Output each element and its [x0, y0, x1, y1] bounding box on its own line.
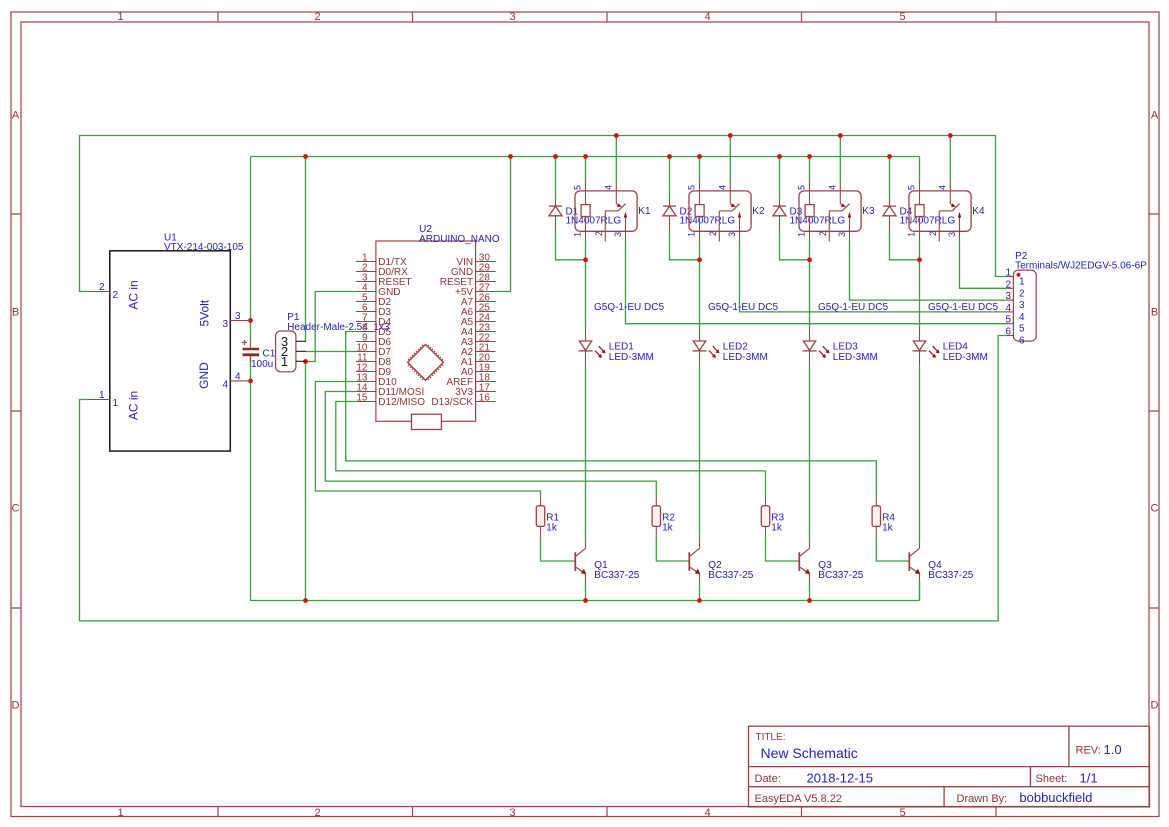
svg-text:1k: 1k: [882, 522, 894, 533]
svg-text:1: 1: [796, 232, 806, 237]
terminal block P2: [1013, 270, 1036, 341]
svg-text:4: 4: [704, 807, 710, 819]
svg-text:C: C: [1151, 503, 1159, 515]
MCU U2 ARDUINO_NANO: [376, 241, 476, 421]
K4 pin number 1: [906, 232, 916, 237]
svg-text:1: 1: [117, 807, 123, 819]
svg-text:2: 2: [99, 282, 105, 293]
U2 pin 16 D13/SCK: [431, 392, 495, 408]
wire AC bus to K1 pin 4: [615, 136, 617, 182]
LED1 value labels: [609, 342, 654, 364]
U1 pin name 5Volt: [198, 299, 212, 326]
U2 QFP chip glyph: [408, 345, 444, 381]
resistor R2 1k: [652, 497, 660, 536]
transistor Q3 BC337-25: [799, 542, 810, 582]
U2 pin 8 D5: [356, 322, 392, 338]
K2 pin number 5: [686, 185, 696, 190]
svg-text:3: 3: [509, 11, 515, 23]
svg-text:2: 2: [113, 290, 119, 301]
K4 pin number 5: [906, 185, 916, 190]
U1 pin 4: [222, 372, 250, 391]
svg-text:Drawn By:: Drawn By:: [957, 793, 1008, 805]
wire R3 to Q3 base: [766, 536, 800, 561]
U2 pin 24 A5: [461, 312, 496, 328]
svg-text:5: 5: [899, 11, 905, 23]
svg-text:2: 2: [818, 231, 828, 236]
K2 pin number 3: [727, 232, 737, 237]
wire Q1 emitter to GND bus: [585, 582, 587, 601]
svg-text:G5Q-1-EU DC5: G5Q-1-EU DC5: [928, 302, 998, 313]
svg-text:5: 5: [1019, 324, 1025, 335]
wire R2 to Q2 base: [656, 536, 689, 561]
svg-text:ARDUINO_NANO: ARDUINO_NANO: [419, 234, 500, 245]
wire D3 anode to K3 coil node: [780, 231, 810, 260]
wire K3 pin 1 to LED3: [809, 242, 811, 327]
K1 reference label: [638, 206, 651, 217]
svg-text:4: 4: [222, 380, 228, 391]
svg-text:LED3: LED3: [833, 342, 858, 353]
svg-text:2: 2: [1019, 288, 1025, 299]
wire +5V to K1 pin 5: [585, 157, 587, 182]
svg-text:4: 4: [704, 11, 710, 23]
svg-text:C: C: [12, 503, 20, 515]
svg-text:1N4007RLG: 1N4007RLG: [566, 216, 622, 227]
svg-text:3: 3: [727, 232, 737, 237]
svg-text:Sheet:: Sheet:: [1036, 773, 1068, 785]
svg-text:2: 2: [1005, 279, 1011, 290]
wire +5V drop to U2 pin 27: [496, 157, 511, 292]
K3 pin number 1: [796, 232, 806, 237]
D2 value labels: [680, 206, 736, 226]
U2 pin 12 D9: [356, 362, 392, 378]
wire LED2 to Q2 collector: [699, 366, 701, 542]
P2 pin 4: [1005, 303, 1025, 323]
svg-text:K1: K1: [638, 206, 651, 217]
U2 pin 18 AREF: [446, 372, 495, 388]
U2 pin 17 3V3: [455, 382, 495, 398]
svg-text:1N4007RLG: 1N4007RLG: [900, 216, 956, 227]
U2 pin 3 RESET: [356, 272, 412, 288]
K1 pin number 2: [594, 231, 604, 236]
U2 pin 26 A7: [461, 292, 496, 308]
wire +5V to K4 pin 5: [919, 157, 921, 182]
Q2 value labels: [708, 560, 753, 581]
wire +5V to K2 pin 5: [699, 157, 701, 182]
svg-text:1N4007RLG: 1N4007RLG: [680, 216, 736, 227]
P2 reference label: [1015, 251, 1147, 272]
U2 USB connector glyph: [412, 414, 442, 429]
wire GND/C1 riser and emitter bus: [251, 157, 920, 601]
K2 pin number 4: [717, 185, 727, 190]
U1 pin 2: [90, 282, 119, 301]
svg-text:1k: 1k: [662, 522, 674, 533]
wire AC bus to K3 pin 4: [839, 136, 841, 182]
diode D3 1N4007RLG: [773, 200, 786, 231]
svg-text:LED-3MM: LED-3MM: [609, 352, 654, 363]
svg-text:5: 5: [906, 185, 916, 190]
wire U2 D11 to R2: [325, 392, 656, 497]
K1 pin number 4: [603, 185, 613, 190]
junction dots +5V bus: [303, 154, 892, 159]
resistor R3 1k: [761, 497, 769, 536]
K3 reference label: [862, 206, 875, 217]
diode D2 1N4007RLG: [663, 200, 676, 231]
C1 value labels: [251, 349, 276, 371]
svg-text:2: 2: [594, 231, 604, 236]
U2 pin 7 D4: [356, 312, 392, 328]
svg-text:LED-3MM: LED-3MM: [833, 352, 878, 363]
svg-text:100u: 100u: [251, 359, 273, 370]
wire +5V bus: [251, 156, 920, 158]
svg-text:5: 5: [899, 807, 905, 819]
K4 pin number 3: [947, 232, 957, 237]
wire K2 pin 1 to LED2: [699, 242, 701, 327]
svg-text:LED-3MM: LED-3MM: [723, 352, 768, 363]
svg-text:1/1: 1/1: [1080, 771, 1098, 786]
R4 value labels: [882, 512, 895, 533]
K1 pin number 3: [613, 232, 623, 237]
svg-text:3: 3: [613, 232, 623, 237]
LED4 value labels: [943, 342, 988, 364]
junction dot P1 pin 1 GND node: [303, 359, 308, 364]
D3 value labels: [790, 206, 846, 226]
title block Drawn By field: [957, 790, 1093, 805]
svg-text:1: 1: [572, 232, 582, 237]
svg-text:3: 3: [222, 319, 228, 330]
wire +5V riser to P1 pin 3: [305, 157, 307, 342]
svg-text:K4: K4: [972, 206, 985, 217]
K3 pin number 5: [796, 185, 806, 190]
P2 pin 2: [1005, 279, 1025, 299]
P2 pin 1: [1005, 268, 1025, 288]
wire U2 D5 to R4: [346, 332, 877, 497]
svg-text:LED2: LED2: [723, 342, 748, 353]
Q4 value labels: [928, 560, 973, 581]
wire U2 GND pin 4 to P1 pin 1 node: [306, 292, 356, 362]
wire U2 D7 to P1 pin 2: [306, 351, 356, 353]
relay K1 G5Q-1-EU DC5: [575, 182, 637, 242]
diode D1 1N4007RLG: [549, 200, 562, 231]
U2 pin 23 A4: [461, 322, 496, 338]
title block REV field: [1076, 742, 1122, 757]
svg-text:2018-12-15: 2018-12-15: [807, 771, 874, 786]
svg-text:5: 5: [572, 185, 582, 190]
wire LED3 to Q3 collector: [809, 366, 811, 542]
P1 pin 2: [281, 344, 306, 359]
P1 pin 1: [281, 354, 306, 369]
wire AC bus from U1 pin 2 to relay commons: [80, 136, 1007, 292]
svg-text:AC in: AC in: [127, 391, 141, 420]
svg-text:2: 2: [928, 231, 938, 236]
svg-text:2: 2: [314, 807, 320, 819]
wire +5V to D2 cathode: [669, 157, 671, 200]
U2 reference label: [419, 224, 500, 245]
U1 pin 3: [222, 311, 250, 330]
wire K3 pin3 to P2 pin 3: [850, 242, 1007, 301]
svg-text:BC337-25: BC337-25: [594, 570, 639, 581]
svg-text:Terminals/WJ2EDGV-5.06-6P: Terminals/WJ2EDGV-5.06-6P: [1015, 261, 1147, 272]
transistor Q4 BC337-25: [909, 542, 920, 582]
R3 value labels: [771, 512, 784, 533]
U2 pin 20 A1: [461, 352, 496, 368]
LED3 LED-3MM: [803, 327, 830, 367]
P1 pin 3: [281, 334, 306, 349]
P1 reference label: [287, 312, 390, 333]
resistor R1 1k: [536, 497, 544, 536]
wire R4 to Q4 base: [876, 536, 909, 561]
svg-text:bobbuckfield: bobbuckfield: [1019, 790, 1092, 805]
svg-text:B: B: [12, 307, 19, 319]
svg-text:New Schematic: New Schematic: [761, 745, 858, 761]
svg-text:K3: K3: [862, 206, 875, 217]
svg-text:4: 4: [827, 185, 837, 190]
wire +5V to K3 pin 5: [809, 157, 811, 182]
svg-text:1: 1: [117, 11, 123, 23]
U1 reference label: [164, 233, 244, 254]
svg-text:4: 4: [717, 185, 727, 190]
U2 pin 21 A2: [461, 342, 496, 358]
wire Q3 emitter to GND bus: [809, 582, 811, 601]
svg-text:EasyEDA V5.8.22: EasyEDA V5.8.22: [755, 793, 842, 805]
U2 pin 1 D1/TX: [356, 252, 407, 268]
K2 pin number 2: [708, 231, 718, 236]
svg-text:4: 4: [937, 185, 947, 190]
svg-text:4: 4: [603, 185, 613, 190]
svg-text:Date:: Date:: [755, 773, 781, 785]
svg-text:1: 1: [99, 390, 105, 401]
junction dots relay coil nodes: [583, 257, 922, 262]
svg-text:LED-3MM: LED-3MM: [943, 352, 988, 363]
R2 value labels: [662, 512, 675, 533]
svg-text:15: 15: [356, 392, 368, 403]
LED4 LED-3MM: [913, 327, 940, 367]
svg-text:1: 1: [1005, 268, 1011, 279]
K1 pin number 5: [572, 185, 582, 190]
U2 pin 30 VIN: [456, 252, 495, 268]
wire GND bottom bus from U1 pin 1 to P2 pin 6: [80, 336, 1007, 621]
wire P1 pin1 to GND bus: [305, 362, 307, 601]
svg-text:6: 6: [1019, 336, 1025, 347]
svg-text:1: 1: [113, 398, 119, 409]
svg-text:C1: C1: [263, 349, 276, 360]
K3 pin number 2: [818, 231, 828, 236]
header P1: [276, 331, 296, 372]
U1 pin 1: [90, 390, 119, 409]
U2 pin 10 D7: [356, 342, 392, 358]
svg-text:4: 4: [1005, 303, 1011, 314]
U2 pin 15 D12/MISO: [356, 392, 425, 408]
svg-text:K2: K2: [752, 206, 765, 217]
wire D4 anode to K4 coil node: [890, 231, 920, 260]
K2 reference label: [752, 206, 765, 217]
transistor Q2 BC337-25: [689, 542, 700, 582]
svg-text:1: 1: [686, 232, 696, 237]
svg-text:REV:: REV:: [1076, 745, 1101, 757]
LED2 value labels: [723, 342, 768, 364]
svg-text:AC in: AC in: [127, 280, 141, 309]
svg-text:3: 3: [837, 232, 847, 237]
title block EasyEDA version: [755, 793, 842, 805]
K4 pin number 4: [937, 185, 947, 190]
svg-text:1: 1: [1019, 277, 1025, 288]
wire +5V to D3 cathode: [779, 157, 781, 200]
wire AC bus to K4 pin 4: [949, 136, 951, 182]
svg-text:3: 3: [509, 807, 515, 819]
svg-text:B: B: [1151, 307, 1158, 319]
svg-text:1k: 1k: [546, 522, 558, 533]
svg-text:1k: 1k: [771, 522, 783, 533]
LED1 LED-3MM: [579, 327, 606, 367]
transistor Q1 BC337-25: [575, 542, 586, 582]
K1 pin number 1: [572, 232, 582, 237]
svg-text:G5Q-1-EU DC5: G5Q-1-EU DC5: [708, 302, 778, 313]
svg-text:A: A: [12, 110, 20, 122]
U2 pin 4 GND: [356, 282, 401, 298]
LED3 value labels: [833, 342, 878, 364]
svg-text:D: D: [12, 700, 20, 712]
svg-text:3: 3: [235, 311, 241, 322]
wire K1 pin 1 to LED1: [585, 242, 587, 327]
U2 pin 25 A6: [461, 302, 496, 318]
U2 pin 14 D11/MOSI: [356, 382, 424, 398]
wire U2 D12 to R3: [336, 402, 766, 497]
P2 pin-1 mark: [1017, 273, 1021, 277]
svg-text:3: 3: [1019, 300, 1025, 311]
relay K4 G5Q-1-EU DC5: [909, 182, 971, 242]
U2 pin 9 D6: [356, 332, 392, 348]
svg-text:4: 4: [1019, 312, 1025, 323]
wire K2 pin3 to P2 pin 4: [740, 242, 1007, 312]
U1 pin name GND: [197, 362, 211, 389]
K4 value label G5Q-1-EU DC5: [928, 302, 998, 313]
K3 value label G5Q-1-EU DC5: [818, 302, 888, 313]
svg-text:TITLE:: TITLE:: [756, 732, 786, 743]
wire Q2 emitter to GND bus: [699, 582, 701, 601]
wire LED4 to Q4 collector: [919, 366, 921, 542]
K4 reference label: [972, 206, 985, 217]
title block Date field: [755, 771, 874, 786]
U2 pin 2 D0/RX: [356, 262, 408, 278]
U2 pin 28 RESET: [440, 272, 496, 288]
U2 pin 11 D8: [356, 352, 392, 368]
power module U1: [110, 251, 231, 451]
wire R1 to Q1 base: [541, 536, 576, 561]
U2 pin 29 GND: [451, 262, 496, 278]
LED2 LED-3MM: [693, 327, 720, 367]
svg-text:GND: GND: [197, 362, 211, 389]
wire U2 D10 to R1: [315, 382, 540, 497]
svg-text:4: 4: [235, 372, 241, 383]
svg-text:BC337-25: BC337-25: [708, 570, 753, 581]
title block TITLE field: [756, 732, 858, 761]
svg-text:D12/MISO: D12/MISO: [378, 397, 425, 408]
svg-text:LED1: LED1: [609, 342, 634, 353]
U2 pin 5 D2: [356, 292, 392, 308]
wire D2 anode to K2 coil node: [670, 231, 700, 260]
svg-text:A: A: [1151, 110, 1159, 122]
K1 value label G5Q-1-EU DC5: [594, 302, 664, 313]
wire LED1 to Q1 collector: [585, 366, 587, 542]
wire K4 pin3 to P2 pin 2: [960, 242, 1007, 289]
U2 pin 27 +5V: [455, 282, 496, 298]
svg-text:G5Q-1-EU DC5: G5Q-1-EU DC5: [594, 302, 664, 313]
wire K1 pin3 to P2 pin 5: [626, 242, 1007, 324]
wire AC bus to K2 pin 4: [729, 136, 731, 182]
svg-text:5: 5: [1005, 315, 1011, 326]
wire D1 anode to K1 coil node: [556, 231, 586, 260]
svg-text:5Volt: 5Volt: [198, 299, 212, 326]
K4 pin number 2: [928, 231, 938, 236]
svg-text:1: 1: [281, 354, 288, 369]
relay K2 G5Q-1-EU DC5: [689, 182, 751, 242]
svg-text:1.0: 1.0: [1104, 742, 1122, 757]
svg-text:VTX-214-003-105: VTX-214-003-105: [164, 242, 244, 253]
svg-text:1N4007RLG: 1N4007RLG: [790, 216, 846, 227]
D4 value labels: [900, 206, 956, 226]
wire +5V to D4 cathode: [889, 157, 891, 200]
D1 value labels: [566, 206, 622, 226]
U1 pin name AC in (top): [127, 280, 141, 309]
U2 pin 22 A3: [461, 332, 496, 348]
P2 pin 6: [1005, 327, 1025, 347]
svg-text:6: 6: [1005, 327, 1011, 338]
svg-text:5: 5: [686, 185, 696, 190]
wire K4 pin 1 to LED4: [919, 242, 921, 327]
svg-text:BC337-25: BC337-25: [818, 570, 863, 581]
K2 pin number 1: [686, 232, 696, 237]
title block Sheet field: [1036, 771, 1098, 786]
svg-text:D13/SCK: D13/SCK: [431, 397, 473, 408]
K3 pin number 4: [827, 185, 837, 190]
svg-text:D: D: [1151, 700, 1159, 712]
junction dots U1 outputs: [248, 318, 253, 383]
junction dots emitter bus: [303, 598, 812, 603]
svg-text:2: 2: [314, 11, 320, 23]
P2 pin 5: [1005, 315, 1025, 335]
svg-text:5: 5: [796, 185, 806, 190]
U2 pin 19 A0: [461, 362, 496, 378]
relay K3 G5Q-1-EU DC5: [799, 182, 861, 242]
U2 pin 6 D3: [356, 302, 392, 318]
svg-text:2: 2: [708, 231, 718, 236]
svg-text:1: 1: [906, 232, 916, 237]
P2 pin 3: [1005, 291, 1025, 311]
svg-text:3: 3: [1005, 291, 1011, 302]
U1 pin name AC in (bottom): [127, 391, 141, 420]
wire Q4 emitter to GND bus: [919, 582, 921, 601]
Q1 value labels: [594, 560, 639, 581]
R1 value labels: [546, 512, 559, 533]
resistor R4 1k: [872, 497, 880, 536]
svg-text:G5Q-1-EU DC5: G5Q-1-EU DC5: [818, 302, 888, 313]
title block: [749, 726, 1150, 807]
K3 pin number 3: [837, 232, 847, 237]
svg-text:16: 16: [479, 392, 491, 403]
svg-text:3: 3: [947, 232, 957, 237]
K2 value label G5Q-1-EU DC5: [708, 302, 778, 313]
U2 pin 13 D10: [356, 372, 397, 388]
diode D4 1N4007RLG: [883, 200, 896, 231]
svg-text:BC337-25: BC337-25: [928, 570, 973, 581]
svg-text:LED4: LED4: [943, 342, 968, 353]
junction dots AC bus: [614, 133, 953, 138]
wire +5V to D1 cathode: [555, 157, 557, 200]
capacitor C1 100u polarized: [242, 340, 259, 363]
Q3 value labels: [818, 560, 863, 581]
